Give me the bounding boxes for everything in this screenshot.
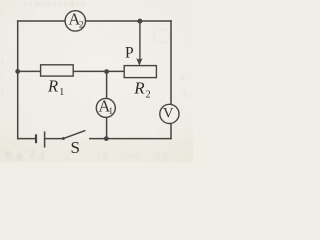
svg-text:S: S (71, 138, 80, 157)
wire: rheostat wiper arrow shaft (139, 21, 141, 59)
svg-text:2: 2 (146, 90, 151, 101)
wire: right vertical (170, 21, 172, 139)
svg-text:0: 0 (17, 152, 22, 162)
wire: middle row through R1 to R2 (18, 70, 124, 72)
faint bleed-through marks left and right mid edges (1, 56, 187, 98)
rheostat wiper arrowhead (136, 58, 142, 66)
wire: left vertical (17, 21, 19, 139)
faint bleed-through marks bottom-right (98, 150, 168, 162)
svg-text:R: R (47, 77, 58, 96)
svg-text:2: 2 (30, 149, 35, 160)
voltmeter V (160, 104, 179, 123)
svg-text:1: 1 (40, 151, 45, 162)
svg-text:1: 1 (109, 106, 114, 116)
resistor R2 (rheostat body) (124, 66, 156, 78)
faint bleed-through ring smudge near top-right (154, 29, 170, 43)
svg-text:0: 0 (6, 150, 11, 161)
svg-text:c o o: c o o (120, 150, 139, 161)
svg-text:n: n (180, 72, 185, 82)
svg-text:i n m r e s o n d e: i n m r e s o n d e r (24, 0, 84, 8)
svg-text:P: P (125, 45, 134, 62)
node: middle row / A1 branch junction (104, 69, 109, 74)
battery negative plate (short thick) (35, 134, 37, 143)
resistor R1 (41, 65, 74, 76)
wire: top horizontal (18, 20, 171, 22)
ammeter A2 (65, 10, 85, 32)
wire: bottom, corner to battery minus plate (18, 138, 36, 140)
svg-text:V: V (163, 105, 174, 121)
ammeter A1 (96, 97, 115, 118)
svg-text:u p: u p (155, 151, 168, 162)
label R2 (133, 79, 150, 101)
svg-text:t h: t h (98, 151, 108, 162)
wire: switch contact to bottom-right corner (90, 138, 171, 140)
node: left wire / middle row junction (15, 69, 20, 74)
svg-text:R: R (133, 79, 145, 98)
wire: battery plus plate to switch pivot (45, 138, 64, 140)
switch pivot dot (62, 137, 65, 140)
faint bleed-through digits bottom-left (6, 149, 45, 163)
node: top wire junction to wiper (137, 19, 142, 24)
wire: A1 vertical branch (106, 71, 108, 138)
faint bleed-through text row along top edge (24, 0, 84, 8)
label R1 (47, 77, 64, 99)
svg-text:1: 1 (59, 87, 64, 98)
svg-text:2: 2 (79, 20, 84, 30)
switch S blade (63, 131, 85, 139)
node: bottom wire / A1 branch junction (104, 136, 109, 141)
battery positive plate (long thin) (44, 131, 46, 147)
